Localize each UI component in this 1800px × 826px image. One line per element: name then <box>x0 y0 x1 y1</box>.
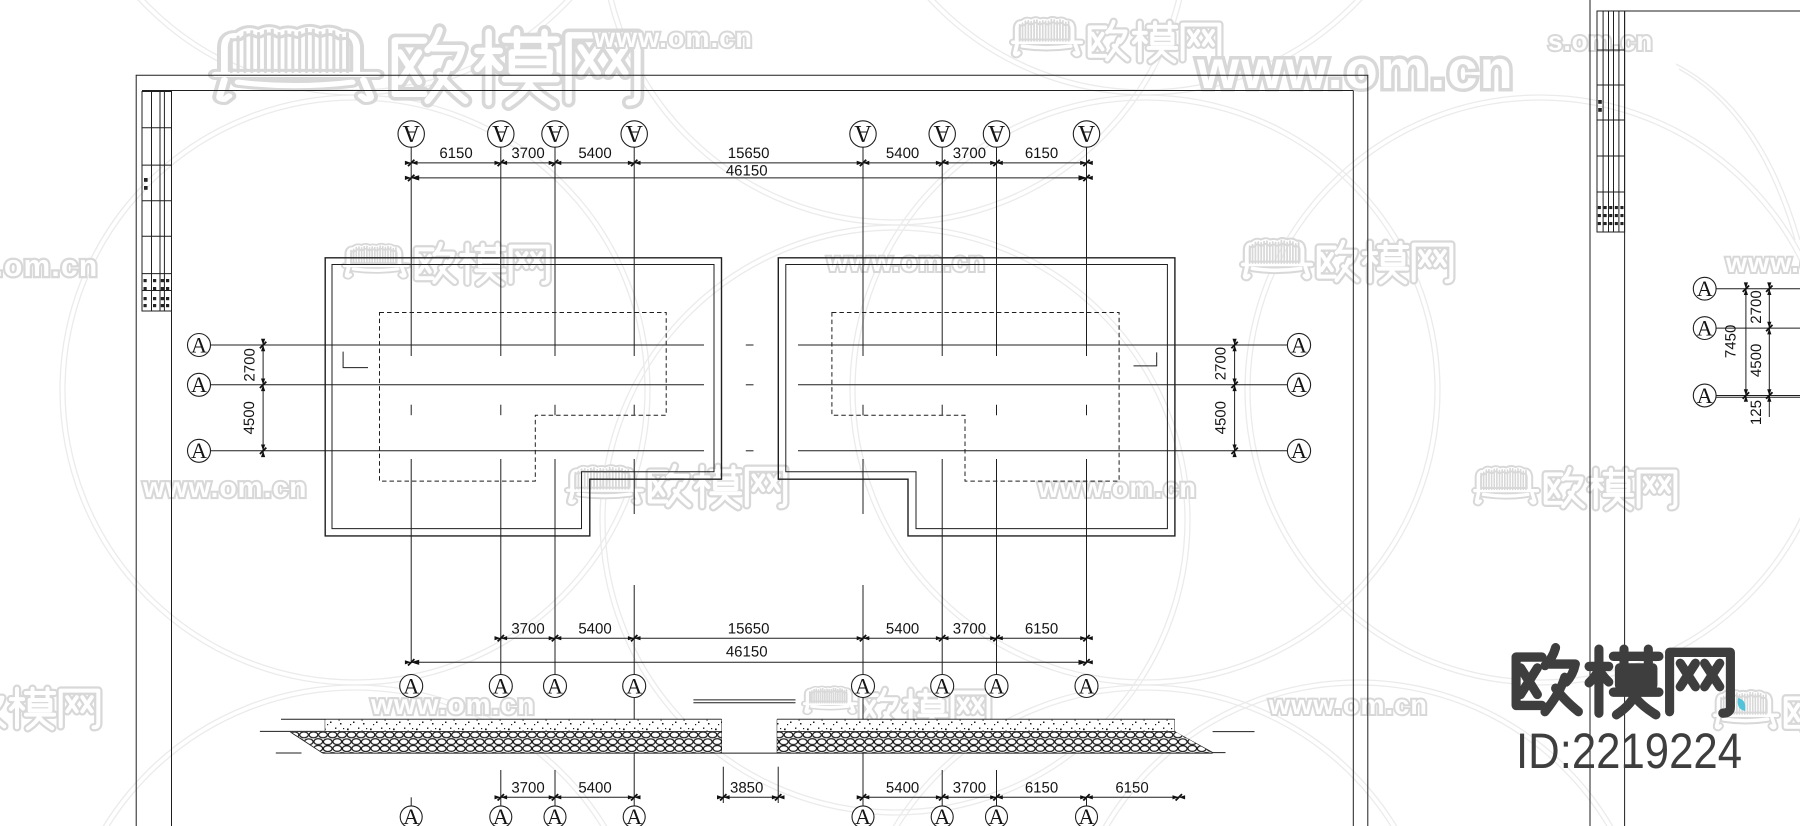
svg-text:www.om.cn: www.om.cn <box>370 689 535 720</box>
svg-text:A: A <box>934 673 950 698</box>
left foundation strip <box>260 719 1213 753</box>
left row circles <box>188 334 211 357</box>
top dim line 46150 <box>411 177 1086 179</box>
right row circles <box>1287 333 1310 356</box>
svg-text:3700: 3700 <box>511 780 544 797</box>
svg-text:46150: 46150 <box>726 644 768 661</box>
svg-text:3700: 3700 <box>511 621 544 638</box>
svg-text:2700: 2700 <box>242 348 259 381</box>
svg-text:www.o: www.o <box>1725 248 1800 278</box>
svg-text:A: A <box>1079 804 1095 826</box>
left bracket mark <box>343 352 368 368</box>
left dim vertical 2700/4500 <box>262 339 264 456</box>
sheet outer frame <box>135 75 137 826</box>
svg-text:3850: 3850 <box>730 780 763 797</box>
svg-text:2700: 2700 <box>1748 290 1765 323</box>
svg-text:6150: 6150 <box>1025 780 1058 797</box>
svg-text:125: 125 <box>1748 400 1765 425</box>
svg-text:A: A <box>547 673 563 698</box>
svg-text:3700: 3700 <box>953 621 986 638</box>
svg-text:A: A <box>547 804 563 826</box>
right bracket mark <box>1134 352 1157 366</box>
svg-text:5400: 5400 <box>886 780 919 797</box>
svg-text:A: A <box>987 120 1005 146</box>
left building dashed footprint <box>380 313 667 482</box>
bottom dim line 3700..6150 <box>501 637 1087 639</box>
svg-text:A: A <box>1697 383 1713 408</box>
right sheet dims <box>1745 284 1747 400</box>
bottom circles row 1 <box>400 675 423 698</box>
title strip (left) <box>142 92 172 312</box>
svg-text:A: A <box>403 804 419 826</box>
right building outer wall <box>778 258 1175 536</box>
svg-text:A: A <box>1079 673 1095 698</box>
svg-text:A: A <box>1697 276 1713 301</box>
svg-text:3700: 3700 <box>511 145 544 162</box>
svg-text:4500: 4500 <box>241 401 258 434</box>
svg-text:www.om.cn: www.om.cn <box>142 472 307 503</box>
svg-text:6150: 6150 <box>439 145 472 162</box>
row lines A A A <box>211 344 705 346</box>
svg-text:A: A <box>855 804 871 826</box>
svg-text:A: A <box>854 120 872 146</box>
svg-text:4500: 4500 <box>1748 344 1765 377</box>
svg-text:15650: 15650 <box>728 621 770 638</box>
svg-text:A: A <box>1697 315 1713 340</box>
right foundation strip <box>777 719 1254 753</box>
svg-text:www.om.cn: www.om.cn <box>593 23 753 53</box>
svg-text:A: A <box>191 332 207 357</box>
svg-text:A: A <box>933 120 951 146</box>
bottom dim line 46150 <box>411 661 1086 663</box>
svg-text:5400: 5400 <box>578 145 611 162</box>
svg-text:5400: 5400 <box>886 621 919 638</box>
svg-text:A: A <box>625 120 643 146</box>
svg-text:s.om.cn: s.om.cn <box>1548 26 1653 56</box>
top dim line 6150..6150 <box>411 162 1086 164</box>
svg-text:4500: 4500 <box>1212 401 1229 434</box>
right sheet frame <box>1589 0 1591 826</box>
svg-text:A: A <box>402 120 420 146</box>
svg-text:A: A <box>626 804 642 826</box>
svg-text:www.om.cn: www.om.cn <box>0 250 98 283</box>
svg-text:A: A <box>855 673 871 698</box>
svg-text:A: A <box>191 372 207 397</box>
second bottom dim lines <box>501 796 634 798</box>
right sheet title strip <box>1597 11 1625 232</box>
svg-text:2700: 2700 <box>1212 347 1229 380</box>
svg-text:6150: 6150 <box>1025 145 1058 162</box>
svg-text:7450: 7450 <box>1723 325 1740 358</box>
title strip tiny text <box>144 178 170 307</box>
svg-text:5400: 5400 <box>886 145 919 162</box>
svg-text:15650: 15650 <box>728 145 770 162</box>
right dim vertical 2700/4500 <box>1234 339 1236 456</box>
svg-text:ID:2219224: ID:2219224 <box>1516 723 1742 779</box>
svg-text:46150: 46150 <box>726 163 768 180</box>
svg-text:A: A <box>491 120 509 146</box>
svg-text:A: A <box>934 804 950 826</box>
svg-text:3700: 3700 <box>953 780 986 797</box>
left building inner wall <box>332 265 714 529</box>
svg-text:6150: 6150 <box>1115 780 1148 797</box>
svg-text:A: A <box>1077 120 1095 146</box>
sheet inner border <box>142 90 1353 92</box>
svg-text:A: A <box>1291 372 1307 397</box>
svg-text:A: A <box>1291 332 1307 357</box>
svg-text:A: A <box>191 438 207 463</box>
right building dashed footprint <box>832 313 1119 482</box>
svg-text:A: A <box>626 673 642 698</box>
svg-text:A: A <box>546 120 564 146</box>
svg-text:A: A <box>493 673 509 698</box>
svg-text:5400: 5400 <box>578 621 611 638</box>
svg-text:www.om.cn: www.om.cn <box>1037 473 1197 503</box>
svg-text:www.om.cn: www.om.cn <box>1268 690 1428 720</box>
stubs above second bottom dim <box>500 770 502 797</box>
brand logo text <box>1516 648 1730 715</box>
svg-text:6150: 6150 <box>1025 621 1058 638</box>
top grid circles <box>398 121 424 147</box>
svg-text:5400: 5400 <box>578 780 611 797</box>
bottom circles row 2 <box>410 797 412 805</box>
double line between strips <box>693 699 795 701</box>
svg-text:A: A <box>989 673 1005 698</box>
vertical grid lines <box>410 147 412 356</box>
right building inner wall <box>786 265 1168 529</box>
svg-text:A: A <box>403 673 419 698</box>
svg-text:A: A <box>989 804 1005 826</box>
svg-text:A: A <box>1291 438 1307 463</box>
svg-text:3700: 3700 <box>953 145 986 162</box>
svg-text:www.om.cn: www.om.cn <box>826 247 986 277</box>
right sheet rows <box>1716 288 1800 290</box>
left building outer wall <box>325 258 721 536</box>
svg-text:A: A <box>493 804 509 826</box>
